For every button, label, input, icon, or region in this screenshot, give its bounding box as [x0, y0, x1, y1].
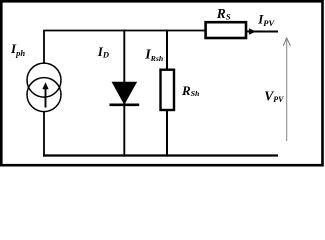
wire current source to bottom	[43, 111, 45, 156]
diode D	[110, 82, 140, 105]
wire diode branch	[123, 30, 125, 157]
wire top horizontal	[44, 31, 206, 63]
arrow VPV	[283, 38, 290, 141]
border frame	[1, 1, 322, 165]
arrow IPV	[249, 28, 256, 35]
wire shunt branch	[166, 30, 168, 157]
resistor RS	[206, 22, 246, 38]
current source Iph	[27, 63, 61, 112]
resistor RSh	[161, 70, 175, 110]
wire bottom horizontal	[43, 154, 278, 156]
wire RS to output	[247, 31, 278, 33]
